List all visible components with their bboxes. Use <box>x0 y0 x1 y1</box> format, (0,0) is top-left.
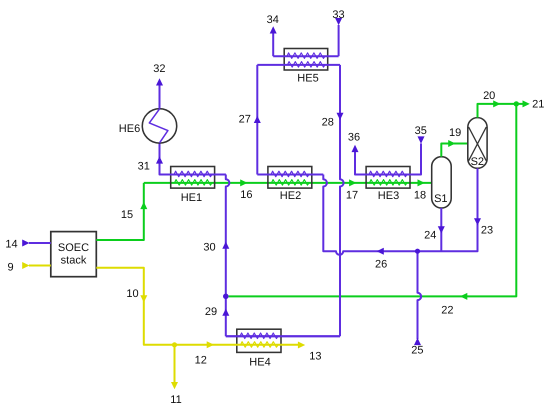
wire HE1 hot outlet to HE6 (stream 31) <box>160 143 226 174</box>
svg-text:25: 25 <box>411 344 423 356</box>
heat exchanger HE4 box <box>237 329 281 352</box>
wire stream 32 outlet <box>159 84 161 109</box>
wire stream 25 input <box>418 251 422 339</box>
svg-text:15: 15 <box>121 209 133 221</box>
wire stream 36 outlet <box>355 150 366 175</box>
svg-text:12: 12 <box>195 354 207 366</box>
wire stream 19 <box>441 144 468 157</box>
arrow stream 14 input <box>22 240 29 247</box>
svg-text:10: 10 <box>126 288 138 300</box>
label 14 <box>5 239 17 251</box>
svg-text:20: 20 <box>483 90 495 102</box>
heat exchanger HE2 box <box>268 167 312 189</box>
label S2 <box>471 156 484 168</box>
label 35 <box>415 125 427 137</box>
svg-text:HE4: HE4 <box>249 356 270 368</box>
cooler HE6 circle <box>142 109 176 143</box>
svg-text:14: 14 <box>5 239 17 251</box>
label HE3 <box>378 190 399 202</box>
svg-text:29: 29 <box>205 306 217 318</box>
arrow stream 21 outlet <box>523 100 530 107</box>
HE5 upper coil (purple) <box>287 53 325 59</box>
arrow stream 26 <box>377 248 384 255</box>
arrow stream 10 <box>140 295 147 302</box>
label 22 <box>441 305 453 317</box>
arrow stream 18 <box>418 179 425 186</box>
arrow stream 31 <box>156 156 163 163</box>
label 31 <box>138 161 150 173</box>
svg-text:33: 33 <box>332 9 344 21</box>
wire HE1 hot through-line <box>160 174 226 176</box>
wire stream 14 input <box>29 242 51 244</box>
label 12 <box>195 354 207 366</box>
svg-text:HE6: HE6 <box>119 123 140 135</box>
arrow stream 9 input <box>22 262 29 269</box>
svg-text:13: 13 <box>309 351 321 363</box>
heat exchanger HE1 box <box>171 167 215 189</box>
svg-text:21: 21 <box>532 99 544 111</box>
junction node yellow splitter <box>172 342 177 347</box>
wire stream 35 input <box>410 144 421 175</box>
svg-text:27: 27 <box>239 113 251 125</box>
svg-text:S1: S1 <box>434 193 447 205</box>
wire HE2 hot through-line <box>257 174 323 176</box>
HE5 lower coil (purple) <box>288 62 326 68</box>
wire stream 24 <box>440 208 442 251</box>
wire stream 27 riser <box>256 65 258 175</box>
wire HE4 hot through-line <box>226 335 340 337</box>
wire stream 15 from SOEC stack <box>96 183 144 240</box>
arrow stream 29 <box>222 309 229 316</box>
label 29 <box>205 306 217 318</box>
arrow stream 13 outlet <box>298 342 305 349</box>
label HE1 <box>181 192 202 204</box>
label S1 <box>434 193 447 205</box>
wire stream 26 header and 23 from S2 <box>323 168 477 255</box>
arrow stream 19 <box>448 140 455 147</box>
label HE4 <box>249 356 270 368</box>
svg-text:HE5: HE5 <box>297 72 318 84</box>
separator S2 vessel <box>468 118 487 169</box>
svg-text:36: 36 <box>348 131 360 143</box>
wire HE5 lower through-line <box>257 64 340 66</box>
label 21 <box>532 99 544 111</box>
svg-text:SOEC: SOEC <box>58 242 89 254</box>
svg-text:26: 26 <box>375 259 387 271</box>
label 26 <box>375 259 387 271</box>
arrow stream 23 <box>474 218 481 225</box>
arrow stream 17 <box>349 179 356 186</box>
HE3 hot coil (purple) <box>369 171 407 177</box>
arrow stream 24 <box>438 226 445 233</box>
wire stream 33 input <box>338 25 340 56</box>
label 25 <box>411 344 423 356</box>
arrow stream 35 input <box>418 136 425 143</box>
label 11 <box>170 394 181 406</box>
wire streams 29-30 riser <box>226 175 340 337</box>
arrow stream 11 outlet <box>171 382 178 389</box>
label 23 <box>481 224 493 236</box>
wire stream 11 outlet <box>174 345 176 384</box>
HE1 hot coil (purple) <box>174 171 212 177</box>
wire HE3 hot through-line <box>355 174 421 176</box>
label 18 <box>414 190 426 202</box>
wire streams 10-12 from SOEC <box>96 268 298 345</box>
arrow stream 12 <box>207 341 214 348</box>
separator S1 vessel <box>432 157 452 208</box>
label 34 <box>267 14 279 26</box>
svg-text:34: 34 <box>267 14 279 26</box>
svg-text:HE3: HE3 <box>378 190 399 202</box>
HE2 hot coil (purple) <box>271 171 309 177</box>
label 19 <box>449 127 461 139</box>
svg-text:stack: stack <box>61 255 87 267</box>
junction node mixer 22+29 <box>223 294 229 300</box>
svg-text:23: 23 <box>481 224 493 236</box>
svg-text:17: 17 <box>346 190 358 202</box>
wire HE5 upper through-line stream 33-34 <box>273 55 338 57</box>
label 36 <box>348 131 360 143</box>
arrow stream 32 outlet <box>156 78 163 85</box>
label 16 <box>240 189 252 201</box>
HE6 internal zigzag <box>149 109 168 143</box>
arrow stream 25 input <box>414 338 421 345</box>
SOEC stack unit <box>51 232 97 277</box>
label 28 <box>322 117 334 129</box>
svg-text:S2: S2 <box>471 156 484 168</box>
arrow stream 27 <box>254 116 261 123</box>
svg-text:9: 9 <box>7 261 13 273</box>
svg-text:18: 18 <box>414 190 426 202</box>
svg-text:32: 32 <box>153 63 165 75</box>
svg-text:24: 24 <box>424 230 436 242</box>
wire main green line 15-16-17-18 <box>144 182 432 184</box>
arrow stream 30 <box>222 242 229 249</box>
svg-text:30: 30 <box>203 241 215 253</box>
arrow stream 36 outlet <box>352 145 359 152</box>
label HE2 <box>280 190 301 202</box>
svg-text:22: 22 <box>441 305 453 317</box>
svg-text:28: 28 <box>322 117 334 129</box>
HE2 cold coil (green) <box>272 180 310 186</box>
label HE5 <box>297 72 318 84</box>
label 33 <box>332 9 344 21</box>
wire stream 22 recycle <box>229 104 517 297</box>
arrow stream 20 <box>493 100 500 107</box>
svg-text:31: 31 <box>138 161 150 173</box>
junction node 25 into 26 <box>415 249 420 254</box>
svg-text:16: 16 <box>240 189 252 201</box>
svg-text:19: 19 <box>449 127 461 139</box>
svg-text:11: 11 <box>170 394 181 406</box>
heat exchanger HE5 box <box>284 49 328 71</box>
label 15 <box>121 209 133 221</box>
svg-text:HE2: HE2 <box>280 190 301 202</box>
wire stream 9 input <box>29 265 51 267</box>
svg-text:HE1: HE1 <box>181 192 202 204</box>
svg-text:35: 35 <box>415 125 427 137</box>
HE4 hot coil (purple) <box>240 333 278 339</box>
arrow stream 28 <box>337 113 344 120</box>
arrow stream 34 outlet <box>270 26 277 33</box>
label 32 <box>153 63 165 75</box>
label 30 <box>203 241 215 253</box>
arrow stream 33 input <box>335 18 342 25</box>
wire stream 34 outlet <box>272 32 274 57</box>
label 10 <box>126 288 138 300</box>
wire stream 28 downcomer <box>340 65 344 336</box>
arrow stream 22 <box>460 293 467 300</box>
HE1 cold coil (green) <box>175 180 213 186</box>
label 17 <box>346 190 358 202</box>
HE4 cold coil (yellow) <box>241 342 279 348</box>
heat exchanger HE3 box <box>366 167 410 189</box>
junction node green 20-21-22 <box>514 101 519 106</box>
label 24 <box>424 230 436 242</box>
wire stream 20-21 <box>478 104 526 118</box>
HE3 cold coil (green) <box>370 180 408 186</box>
arrow stream 16 <box>240 179 247 186</box>
label 13 <box>309 351 321 363</box>
label 20 <box>483 90 495 102</box>
label HE6 <box>119 123 140 135</box>
arrow stream 15 <box>140 202 147 209</box>
label 9 <box>7 261 13 273</box>
label 27 <box>239 113 251 125</box>
